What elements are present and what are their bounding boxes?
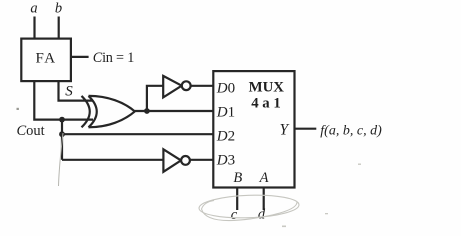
svg-text:FA: FA: [35, 50, 56, 66]
full adder FA: [21, 39, 71, 82]
wire a: [33, 17, 35, 39]
svg-text:A: A: [259, 170, 269, 186]
wire Y output: [294, 128, 316, 130]
wire Cin: [71, 56, 89, 58]
junction node (D2 branch): [59, 131, 65, 137]
wire select B: [236, 187, 238, 210]
wire bottom inverter to D3: [190, 159, 213, 161]
wire select A: [263, 187, 265, 210]
wire XOR output to D1: [135, 110, 214, 112]
svg-text:b: b: [55, 0, 62, 16]
junction node (Cout to XOR and down): [59, 117, 65, 123]
wire to D2: [62, 133, 213, 135]
annotation ellipse around c and d: [199, 194, 300, 221]
inverter U2 (bottom): [163, 149, 190, 172]
XOR gate: [82, 96, 135, 127]
svg-text:4 a 1: 4 a 1: [251, 95, 281, 111]
svg-text:a: a: [30, 0, 37, 16]
svg-text:D3: D3: [216, 152, 235, 168]
multiplexer MUX 4 a 1: [213, 71, 294, 187]
wire b: [58, 17, 60, 39]
wire junction down: [61, 120, 63, 160]
faint smudge marks: [17, 108, 362, 227]
svg-text:Cin = 1: Cin = 1: [93, 50, 134, 66]
wire junction up to top inverter: [147, 86, 163, 111]
svg-text:d: d: [258, 207, 266, 223]
svg-text:Y: Y: [279, 122, 289, 139]
svg-text:B: B: [233, 170, 242, 186]
inverter U1 (top): [163, 76, 190, 98]
wire S (FA sum output to XOR top input): [59, 81, 93, 101]
svg-text:MUX: MUX: [249, 79, 285, 95]
svg-text:S: S: [65, 84, 73, 100]
wire top inverter to D0: [191, 85, 214, 87]
svg-text:D0: D0: [216, 80, 235, 96]
svg-text:f(a, b, c, d): f(a, b, c, d): [320, 123, 382, 138]
junction node (XOR output branch): [144, 108, 150, 114]
wire Cout (FA carry output to XOR bottom input): [34, 81, 93, 120]
wire to bottom inverter: [62, 159, 163, 161]
svg-text:Cout: Cout: [17, 123, 45, 139]
svg-text:D2: D2: [216, 128, 235, 144]
stray pencil stroke: [59, 133, 64, 186]
svg-text:D1: D1: [216, 104, 235, 120]
